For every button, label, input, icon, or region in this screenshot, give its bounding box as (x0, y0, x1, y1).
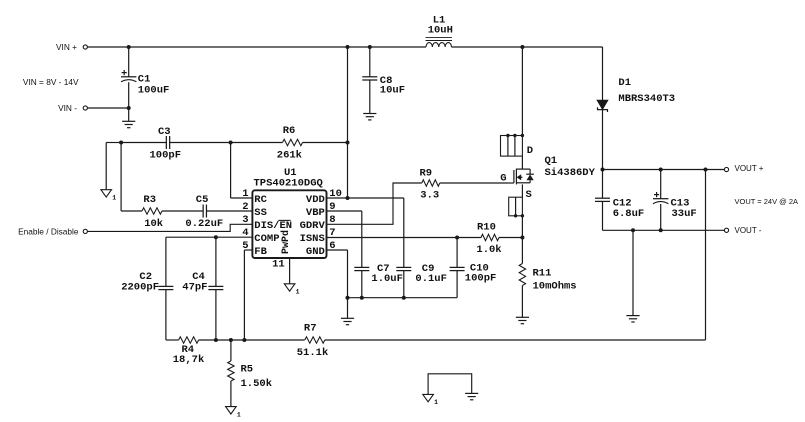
svg-text:VDD: VDD (306, 194, 325, 206)
transistor Q1 drain pins (501, 136, 523, 157)
ground C1 (122, 120, 135, 122)
capacitor C4 (208, 285, 223, 287)
ground analog 1 pin11 (284, 284, 295, 291)
wire C7 bottom lead (361, 271, 363, 298)
svg-text:C5: C5 (196, 194, 209, 206)
wire GND stub (327, 249, 348, 251)
wire D1 to VOUT+ rail (602, 110, 604, 170)
junction source pin b (521, 214, 524, 217)
plus sign C13 (654, 194, 659, 196)
wire R3 tap riser (120, 143, 122, 212)
transistor Q1 source pins (509, 197, 523, 216)
wire C4 riser bottom (215, 290, 217, 340)
ground U1 (341, 317, 354, 319)
svg-text:51.1k: 51.1k (297, 347, 329, 359)
svg-text:D1: D1 (618, 77, 631, 89)
wire R7 to VOUT riser (325, 339, 706, 341)
svg-text:1: 1 (112, 195, 116, 202)
wire C2 riser top (165, 237, 167, 286)
wire cap ground rail (348, 297, 458, 299)
transistor Q1 mosfet symbol (513, 170, 515, 183)
resistor R6 (283, 139, 303, 145)
wire drain to mosfet (521, 156, 523, 169)
svg-text:6.8uF: 6.8uF (613, 208, 645, 220)
wire C3 right (170, 142, 231, 144)
svg-text:261k: 261k (277, 150, 302, 162)
wire C2 riser bottom (165, 290, 167, 340)
capacitor C3 (165, 136, 167, 149)
wire R6 to VDD riser (303, 142, 348, 144)
inductor L1 core lines (426, 37, 453, 39)
wire enable to pin 3 (88, 224, 253, 231)
junction drain pin b (513, 134, 516, 137)
junction FB bottom (242, 338, 246, 342)
resistor R11 (521, 252, 523, 263)
svg-text:VOUT = 24V @ 2A: VOUT = 24V @ 2A (735, 197, 799, 206)
wire gate lead (508, 182, 514, 184)
wire VIN- to C1 (88, 107, 129, 109)
junction sense node (520, 236, 524, 240)
svg-text:COMP: COMP (254, 233, 279, 245)
junction VDD riser / pin 10 (346, 196, 350, 200)
capacitor C5 (202, 205, 204, 218)
svg-text:TPS40210DGQ: TPS40210DGQ (254, 178, 323, 190)
wire VOUT+ rail (603, 169, 725, 171)
terminal Enable (83, 229, 87, 233)
svg-text:10k: 10k (144, 218, 163, 230)
junction C1 / VIN- (127, 106, 131, 110)
svg-text:0.22uF: 0.22uF (185, 218, 223, 230)
capacitor C9 (396, 266, 411, 268)
wire RC rail left to analog ground (106, 142, 121, 144)
junction C1 top (127, 45, 131, 49)
junction C13 bottom (659, 228, 663, 232)
wire drain riser (521, 47, 523, 136)
svg-text:R10: R10 (477, 221, 496, 233)
svg-text:RC: RC (254, 194, 267, 206)
ground VOUT (626, 315, 639, 317)
junction C8 top (368, 45, 372, 49)
wire FB stub (244, 249, 252, 251)
svg-text:GDRV: GDRV (300, 220, 326, 232)
wire pin 11 to ground (289, 258, 291, 284)
overline EN (279, 219, 291, 221)
svg-text:PwPd: PwPd (280, 230, 292, 254)
ground power tie (465, 392, 478, 394)
capacitor C12 (595, 197, 610, 199)
junction C12 top (601, 168, 605, 172)
svg-text:10uF: 10uF (380, 84, 405, 96)
capacitor C1 (121, 76, 136, 78)
terminal VIN+ (83, 45, 87, 49)
junction gnd riser / VOUT- rail (631, 228, 635, 232)
junction C4 top (214, 235, 218, 239)
wire VBP stub (327, 210, 362, 212)
junction VDD riser top (346, 45, 350, 49)
terminal VIN- (83, 106, 87, 110)
ground analog 1 near C3 (101, 190, 112, 197)
wire C8 bottom lead (369, 80, 371, 114)
wire ISNS stub (327, 237, 482, 239)
svg-text:C3: C3 (158, 126, 171, 138)
wire C8 top lead (369, 47, 371, 77)
wire C12 bottom lead (602, 201, 604, 230)
svg-text:Si4386DY: Si4386DY (545, 167, 596, 179)
inductor L1 coil (426, 43, 452, 47)
junction GND rail (346, 296, 350, 300)
wire mosfet to source pins (521, 184, 523, 197)
svg-text:VIN = 8V - 14V: VIN = 8V - 14V (23, 77, 79, 87)
capacitor C2 (158, 285, 173, 287)
wire C1 top lead (128, 47, 130, 77)
wire C9 bottom lead (403, 271, 405, 298)
wire pin 1 stub (231, 197, 253, 199)
svg-text:MBRS340T3: MBRS340T3 (618, 93, 675, 105)
svg-text:3.3: 3.3 (420, 189, 439, 201)
resistor R10 (481, 234, 499, 240)
wire C10 riser top (456, 238, 458, 268)
svg-text:18,7k: 18,7k (173, 354, 205, 366)
capacitor C8 (362, 76, 377, 78)
resistor R7 (305, 337, 325, 343)
junction R6 / VDD riser (346, 141, 350, 145)
svg-text:1.0k: 1.0k (476, 244, 501, 256)
svg-text:VIN -: VIN - (58, 103, 77, 113)
svg-text:100uF: 100uF (138, 85, 170, 97)
plus sign C1 (122, 72, 127, 74)
wire C4 riser top (215, 237, 217, 286)
wire VDD riser (347, 47, 349, 198)
wire C13 bottom lead (660, 204, 662, 230)
svg-text:100pF: 100pF (465, 272, 497, 284)
junction R5 top (229, 338, 233, 342)
wire C9 riser top (403, 198, 405, 267)
junction drain pin a (506, 134, 509, 137)
svg-text:0.1uF: 0.1uF (415, 273, 447, 285)
wire VOUT gnd riser (632, 230, 634, 315)
wire C1 bottom lead (128, 82, 130, 121)
svg-text:100pF: 100pF (150, 149, 182, 161)
svg-text:R6: R6 (283, 125, 296, 137)
wire R4 to junctions (199, 339, 305, 341)
junction R7 riser top (704, 168, 708, 172)
svg-text:11: 11 (272, 259, 285, 271)
svg-text:10mOhms: 10mOhms (533, 281, 577, 293)
wire C5 to pin 2 (207, 210, 253, 212)
ground analog 1 R5 (226, 407, 237, 414)
junction C10 top (455, 236, 459, 240)
svg-text:VOUT +: VOUT + (735, 164, 764, 173)
svg-text:VIN +: VIN + (56, 42, 77, 52)
svg-text:2200pF: 2200pF (121, 282, 159, 294)
svg-text:R3: R3 (143, 194, 156, 206)
capacitor C7 (354, 266, 369, 268)
diode D1 (597, 100, 608, 109)
wire C13 top lead (660, 170, 662, 199)
wire ground tie (428, 374, 472, 395)
svg-text:R9: R9 (420, 168, 433, 180)
wire VIN+ rail to L1 (88, 46, 427, 48)
junction drain pin c (521, 134, 524, 137)
svg-text:D: D (527, 145, 533, 157)
svg-text:1: 1 (296, 289, 300, 296)
capacitor C13 (653, 198, 668, 200)
wire analog gnd riser (105, 143, 107, 190)
svg-text:1.0uF: 1.0uF (371, 273, 403, 285)
svg-text:33uF: 33uF (672, 208, 697, 220)
wire R10 to sense node (499, 237, 522, 239)
junction C9 bottom (402, 296, 406, 300)
wire GDRV to R9 (327, 183, 422, 224)
svg-text:VBP: VBP (306, 207, 325, 219)
resistor R4 (166, 339, 179, 341)
junction R3 tap (119, 141, 123, 145)
wire R9 to gate (440, 182, 508, 184)
junction RC pin riser (229, 141, 233, 145)
junction C13 top (659, 168, 663, 172)
junction switch node / drain riser (520, 45, 524, 49)
svg-text:10uH: 10uH (428, 24, 453, 36)
resistor R5 (230, 340, 232, 361)
wire GND riser (347, 250, 349, 318)
svg-text:1: 1 (434, 399, 438, 406)
ground C8 (363, 113, 376, 115)
junction C4 bottom (214, 338, 218, 342)
svg-text:47pF: 47pF (182, 282, 207, 294)
wire RC pin riser (230, 143, 232, 199)
wire C12 top lead (602, 170, 604, 199)
wire VDD stub (327, 197, 404, 199)
svg-text:Enable / Disable: Enable / Disable (18, 227, 79, 237)
junction C7 bottom (360, 296, 364, 300)
wire L1 to D1 (452, 46, 603, 48)
svg-text:1: 1 (237, 411, 241, 418)
terminal VOUT+ (724, 167, 728, 171)
svg-text:1.50k: 1.50k (241, 378, 273, 390)
svg-text:GND: GND (306, 246, 325, 258)
wire source to sense node (521, 216, 523, 253)
capacitor C10 (450, 266, 465, 268)
junction source pin a (514, 214, 517, 217)
svg-text:ISNS: ISNS (300, 233, 325, 245)
ground R11 (516, 316, 529, 318)
resistor R9 (422, 180, 440, 186)
svg-text:FB: FB (254, 246, 267, 258)
wire switch node to D1 (602, 47, 604, 100)
svg-text:R11: R11 (533, 268, 552, 280)
svg-text:R5: R5 (241, 363, 254, 375)
svg-text:VOUT -: VOUT - (735, 226, 762, 235)
wire C10 bottom lead (456, 271, 458, 298)
wire VOUT- rail (603, 229, 725, 231)
op-amp U1 TPS40210DGQ body (252, 190, 326, 258)
wire FB riser (243, 250, 245, 340)
terminal VOUT- (724, 228, 728, 232)
wire R3 to C5 (162, 210, 203, 212)
wire C3 left (121, 142, 166, 144)
svg-text:SS: SS (254, 207, 267, 219)
svg-text:R7: R7 (304, 323, 317, 335)
wire C7 riser top (361, 211, 363, 267)
svg-text:Q1: Q1 (545, 155, 558, 167)
resistor R3 (121, 210, 142, 212)
wire COMP stub (166, 236, 253, 238)
wire R7 riser (705, 170, 707, 341)
ground analog 1 tie (423, 394, 434, 401)
wire RC to R6 (231, 142, 283, 144)
svg-text:S: S (526, 189, 532, 201)
